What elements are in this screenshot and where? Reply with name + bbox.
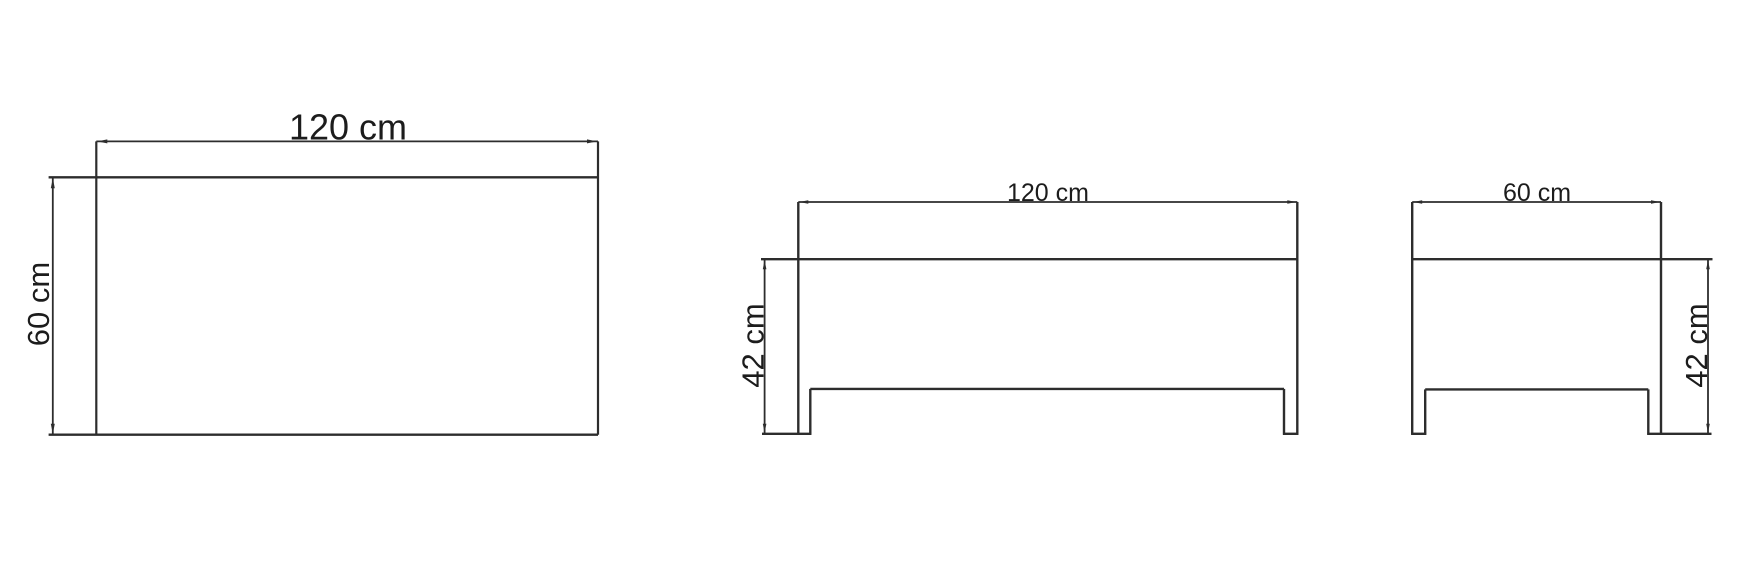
svg-text:120 cm: 120 cm <box>289 107 407 148</box>
tabletop rectangle top edge (with left extension line) <box>49 176 598 178</box>
table top edge (with right extension line) <box>1412 258 1712 260</box>
top arrowhead of 42 cm dimension <box>763 260 767 269</box>
svg-text:120 cm: 120 cm <box>1007 179 1089 207</box>
horizontal dimension line 60 cm <box>1412 201 1661 203</box>
tabletop rectangle left edge (extended up to dimension line) <box>95 141 97 434</box>
left leg bottom <box>1411 433 1426 435</box>
tabletop rectangle right edge (extended up to dimension line) <box>597 141 599 434</box>
right arrowhead of 120 cm dimension <box>587 139 597 143</box>
top arrowhead of 60 cm dimension <box>51 178 55 188</box>
apron bottom edge <box>1425 388 1648 390</box>
left arrowhead of 60 cm dimension <box>1413 200 1422 204</box>
bottom arrowhead of 60 cm dimension <box>51 424 55 434</box>
svg-text:42 cm: 42 cm <box>736 303 771 387</box>
vertical dimension line 42 cm <box>764 259 766 434</box>
right leg inner edge <box>1647 389 1649 434</box>
vertical dimension line 60 cm <box>52 177 54 434</box>
svg-text:60 cm: 60 cm <box>21 262 56 346</box>
table right side edge (extended up to dimension line) <box>1660 202 1662 435</box>
top arrowhead of 42 cm dimension <box>1706 260 1710 269</box>
left leg bottom with left extension line <box>762 433 811 435</box>
right leg bottom with right extension line <box>1647 433 1711 435</box>
left leg inner edge <box>1424 389 1426 434</box>
svg-text:60 cm: 60 cm <box>1503 179 1571 207</box>
right leg inner edge <box>1283 389 1285 435</box>
bottom arrowhead of 42 cm dimension <box>763 424 767 433</box>
left leg inner edge <box>809 389 811 435</box>
horizontal dimension line 120 cm <box>798 201 1297 203</box>
table left side edge (extended up to dimension line) <box>797 202 799 435</box>
left arrowhead of 120 cm dimension <box>799 200 808 204</box>
tabletop rectangle bottom edge (with left extension line) <box>49 434 598 436</box>
table right side edge (extended up to dimension line) <box>1296 202 1298 435</box>
vertical dimension line 42 cm <box>1707 259 1709 434</box>
bottom arrowhead of 42 cm dimension <box>1706 424 1710 433</box>
left arrowhead of 120 cm dimension <box>97 139 107 143</box>
right leg bottom <box>1283 433 1298 435</box>
svg-text:42 cm: 42 cm <box>1679 303 1714 387</box>
right arrowhead of 60 cm dimension <box>1651 200 1660 204</box>
horizontal dimension line 120 cm <box>96 140 598 142</box>
right arrowhead of 120 cm dimension <box>1287 200 1296 204</box>
apron bottom edge <box>810 388 1284 390</box>
table left side edge (extended up to dimension line) <box>1411 202 1413 435</box>
table top edge (with left extension line) <box>761 258 1297 260</box>
